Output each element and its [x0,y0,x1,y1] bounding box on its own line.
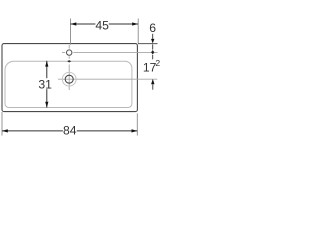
drain inner circle [65,75,73,83]
dim 31 arrow up [45,61,48,67]
dim 6 arrow down [151,39,154,44]
dim 84 extension line left [1,112,3,136]
drain outer circle [62,72,76,86]
dim 45 extension line right [137,19,139,44]
dim 17 arrow up [151,79,154,84]
node diamond on inner rim centerline [67,60,71,62]
dim 45 label [95,20,108,31]
svg-text:6: 6 [149,21,156,35]
basin outer edge [2,44,137,112]
leader segment [152,44,154,49]
dim 31 label [38,78,51,89]
dim 45 arrow right [132,22,138,25]
leader segment [152,55,154,59]
top edge extension line right [138,43,158,45]
dim 84 line [2,130,137,132]
dim 17 arrow tail [152,84,154,89]
dim 84 arrow right [132,129,138,132]
dim 84 arrow left [2,129,8,132]
node diamond on tap line [151,50,154,55]
dim 31 line [46,61,48,108]
tap hole centerline horizontal [62,51,158,53]
dim 31 arrow down [45,102,48,108]
basin inner bowl [5,61,132,107]
svg-text:31: 31 [38,77,52,91]
dim 6 leader [152,34,154,40]
dim 45 extension line left [70,19,72,45]
dim 45 line [71,23,139,25]
drain centerline vertical [68,65,70,91]
svg-text:84: 84 [63,123,77,137]
drain centerline horizontal [58,78,157,80]
tap hole centerline vertical [68,45,70,59]
dim 84 extension line right [136,113,138,135]
tap hole [67,50,72,55]
svg-text:45: 45 [95,19,109,33]
svg-text:2: 2 [155,58,160,68]
dim 84 label [63,125,77,136]
dim 45 arrow left [71,22,77,25]
